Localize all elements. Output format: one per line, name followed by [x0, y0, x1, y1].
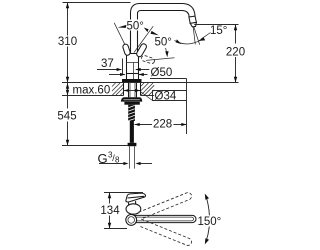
svg-text:Ø34: Ø34 — [155, 91, 177, 103]
dashed spout lower — [138, 219, 192, 246]
main vertical dimension line 310 545 max60 — [67, 3, 69, 36]
lever A solid — [122, 43, 131, 56]
dia34 leader — [140, 92, 152, 101]
spout inner wall — [138, 11, 190, 54]
aerator tip — [190, 22, 196, 27]
dim 228 right arrow — [174, 124, 187, 126]
svg-text:50°: 50° — [155, 37, 172, 49]
svg-text:545: 545 — [57, 111, 76, 123]
shank through deck hole — [129, 83, 137, 98]
lever neck — [129, 201, 136, 206]
lever top view — [126, 193, 146, 202]
dia34 box — [153, 91, 187, 101]
hose tail — [130, 146, 135, 168]
dim 228 left arrow — [135, 124, 153, 126]
lever B solid — [136, 43, 148, 58]
spout capsule solid — [128, 215, 196, 222]
svg-text:134: 134 — [100, 205, 120, 217]
dimension 220 line — [235, 25, 237, 44]
bottom ext line for 545 — [62, 145, 128, 147]
50deg arc bowtie arrow up-left — [144, 28, 149, 33]
dia50 arrow left — [109, 74, 125, 76]
lever C dashed — [141, 55, 155, 64]
deck hatch left — [112, 83, 124, 96]
ext line at outlet level for 220 — [194, 24, 238, 26]
mounting nut — [124, 102, 139, 105]
dashed spout upper — [138, 192, 192, 219]
hose — [130, 121, 134, 143]
svg-text:310: 310 — [58, 36, 77, 48]
body center line — [133, 63, 135, 80]
dim 37 leader left — [97, 69, 121, 71]
15 deg angle arc — [175, 40, 201, 44]
G38 arrows — [99, 163, 125, 165]
dia50 underline — [150, 78, 187, 80]
15 deg arc left arrowhead — [176, 39, 182, 44]
svg-text:15°: 15° — [210, 25, 227, 37]
swivel joint circles — [126, 215, 137, 226]
150deg arc — [206, 196, 210, 216]
dia34 hole arrows — [124, 90, 140, 92]
body top view ellipse — [126, 204, 141, 214]
threaded shank — [128, 105, 135, 121]
dia50 arrow right — [139, 74, 148, 76]
spout outer wall — [131, 4, 196, 54]
aerator collar — [189, 16, 197, 23]
top extension line — [63, 2, 131, 4]
body rectangle — [127, 54, 139, 74]
15 deg leader with arrowhead — [201, 33, 211, 40]
15 deg spout axis line — [194, 27, 200, 45]
deck top line — [62, 82, 239, 84]
ray right for 50deg — [134, 26, 153, 52]
50deg arc bowtie arrow down-right — [151, 31, 159, 36]
washer under deck — [121, 97, 143, 101]
50deg no2 leader down arrow — [166, 48, 167, 53]
svg-text:150°: 150° — [198, 216, 222, 228]
base dark flange — [122, 79, 142, 82]
svg-text:max.60: max.60 — [73, 85, 111, 97]
dim 37 leader right — [136, 69, 150, 71]
svg-text:228: 228 — [153, 119, 172, 131]
15 deg near-vertical reference line — [193, 27, 195, 45]
dim 134 — [104, 192, 143, 194]
50deg arc no1 left arrow — [118, 25, 127, 28]
svg-text:50°: 50° — [127, 21, 144, 33]
hose nut — [128, 143, 137, 146]
deck bottom lines — [62, 95, 124, 97]
ray left for 50deg — [114, 23, 129, 53]
faucet base sides — [127, 74, 139, 80]
white mask for 50deg no1 — [128, 20, 143, 32]
ext line right of 228 and label boundary — [186, 79, 188, 135]
body waist line — [127, 62, 139, 64]
svg-text:220: 220 — [226, 47, 245, 59]
lever C extension ray — [146, 58, 175, 61]
extension line lever front — [122, 59, 124, 74]
riser pipe lines through body top — [130, 31, 132, 54]
deck hatch right — [141, 83, 155, 96]
svg-text:37: 37 — [101, 58, 114, 70]
svg-text:Ø50: Ø50 — [151, 67, 173, 79]
